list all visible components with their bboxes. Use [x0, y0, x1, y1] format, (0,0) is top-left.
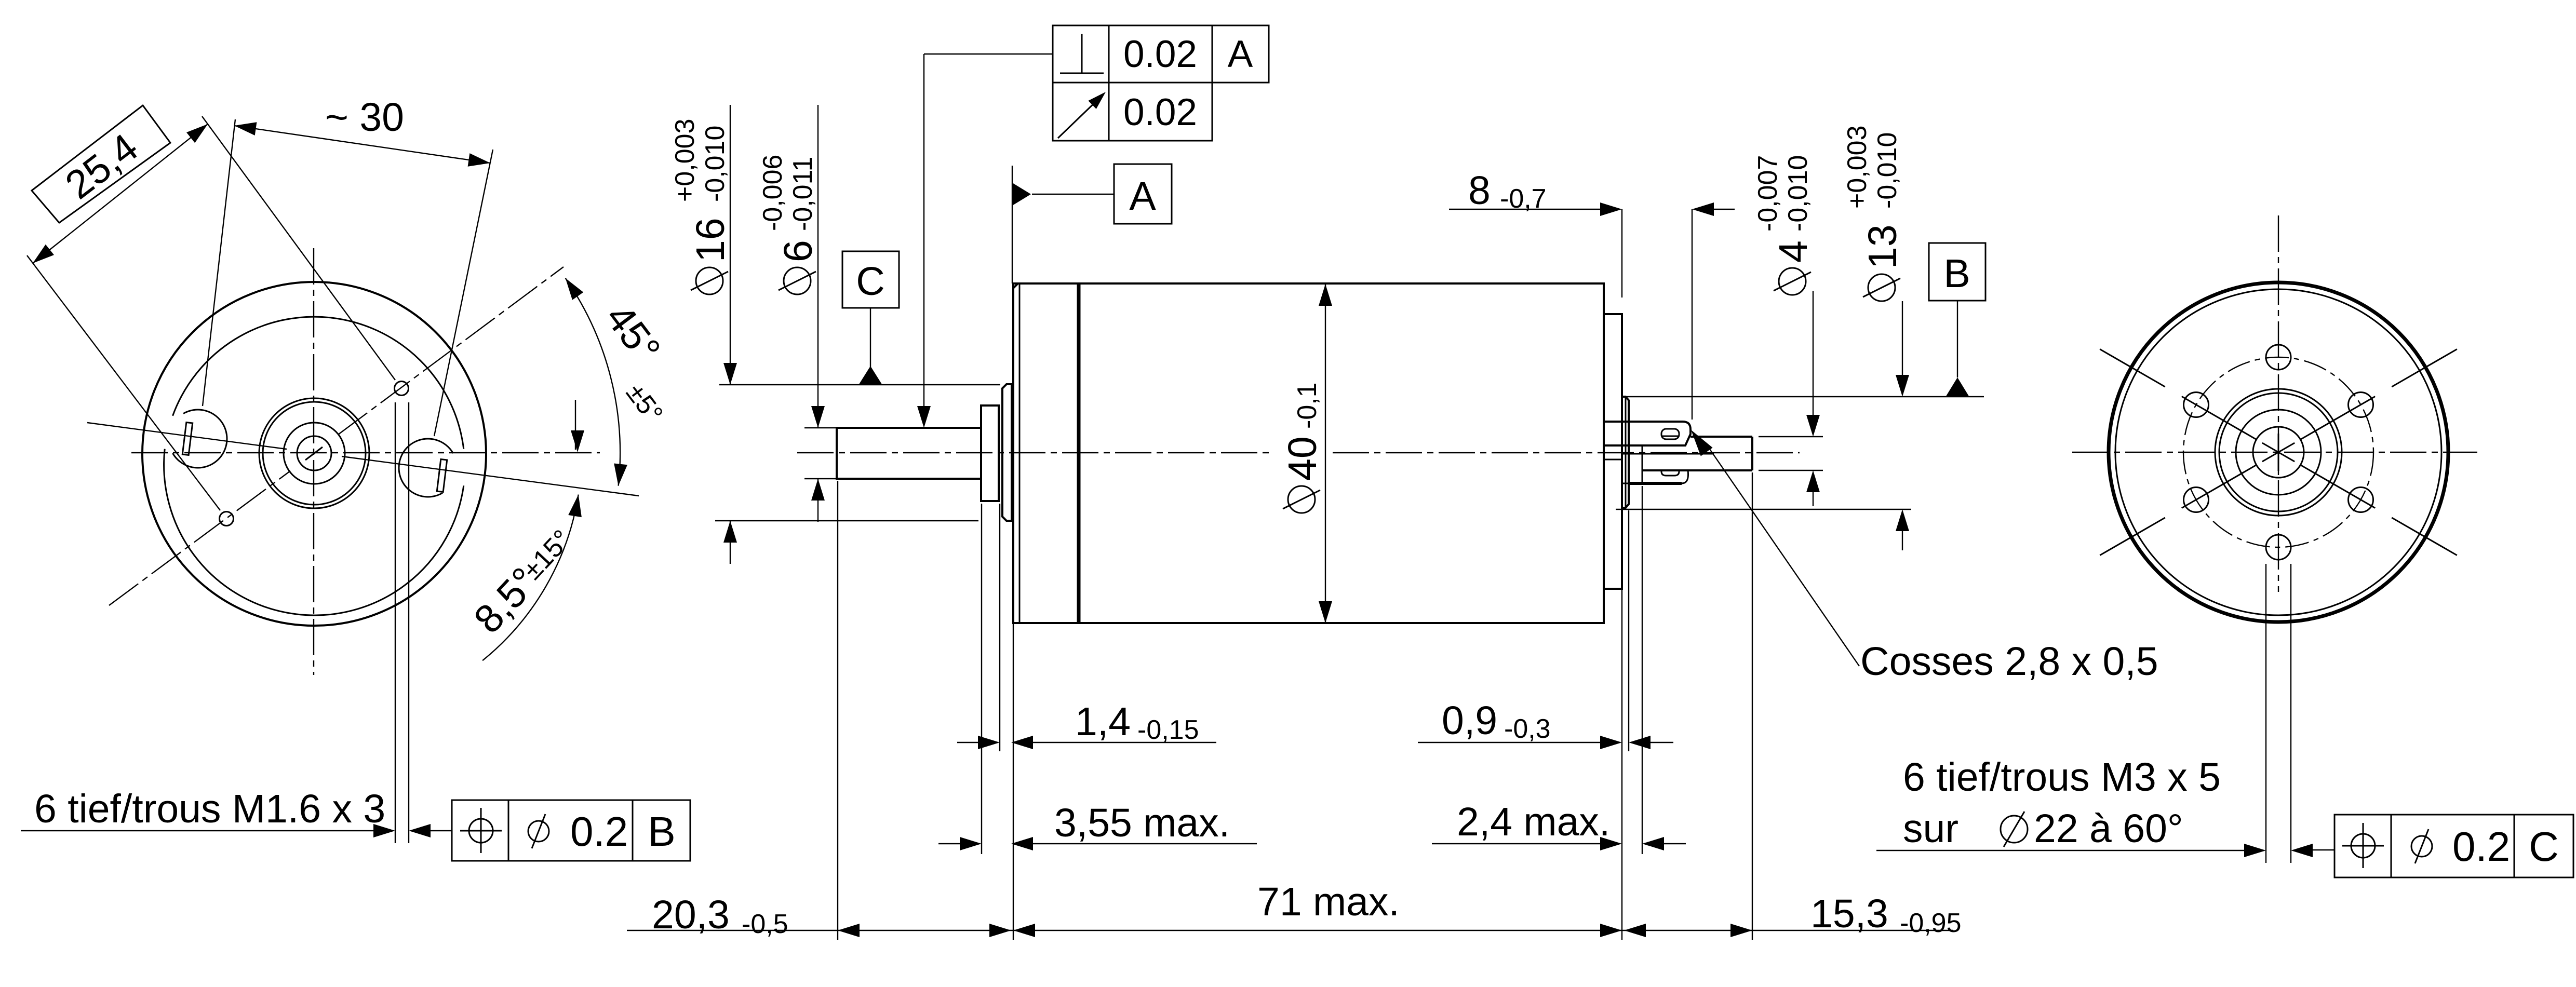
front view pin hole upper-right [395, 382, 409, 396]
front view hub boss circles [259, 398, 369, 508]
svg-text:C: C [856, 259, 885, 304]
rear hub ⌀13 outline [1622, 397, 1629, 508]
svg-text:-0,95: -0,95 [1900, 908, 1962, 938]
svg-text:0.2: 0.2 [570, 808, 628, 855]
front view right notch crimp tab [437, 459, 447, 492]
datum A leader and triangle [1032, 194, 1114, 195]
label ⌀16 with tolerances [670, 119, 733, 295]
front view left notch cutout [173, 410, 227, 468]
dimension ~30 extension lines [203, 119, 235, 406]
lower terminal cosse lines [1622, 453, 1714, 455]
rear view vertical centerline [2278, 215, 2279, 592]
datum C leader and triangle [870, 308, 871, 367]
Cosses leader line and arrow [1705, 442, 1859, 666]
motor body front cap seam line [1019, 283, 1021, 623]
svg-text:-0,010: -0,010 [1872, 132, 1902, 209]
dimension 45° ±5° text [597, 296, 669, 371]
feature control frame position ⌀0.2 B [452, 800, 690, 861]
rear shaft ⌀4 outline [1691, 436, 1752, 438]
dimension 25,4 dimension line with arrows [33, 124, 208, 263]
note M3 leader line and arrows [1876, 850, 2244, 851]
svg-text:4: 4 [1771, 240, 1816, 263]
position symbol in frame B [469, 819, 493, 843]
dimension ⌀4 extension ticks [1759, 436, 1823, 437]
circular runout arrow symbol [1058, 98, 1099, 138]
svg-text:40: 40 [1280, 436, 1325, 481]
datum A box and letter [1114, 164, 1172, 224]
perpendicularity symbol [1081, 34, 1083, 73]
svg-text:±5°: ±5° [620, 378, 668, 428]
dimension 0,9 line and arrows [1418, 742, 1600, 743]
front view vertical centerline [313, 248, 314, 675]
datum C box and letter [842, 251, 899, 308]
note M1.6 leader line and arrows [21, 830, 373, 831]
svg-text:-0,011: -0,011 [788, 156, 818, 231]
diameter symbol in frame C [2411, 836, 2432, 857]
dimension 3,55 line and arrows [938, 843, 960, 844]
label ⌀4 with tolerances [1753, 155, 1816, 295]
dimension 45° arc with arrows [566, 278, 620, 486]
svg-text:6: 6 [776, 240, 821, 262]
svg-text:+0,003: +0,003 [1842, 126, 1872, 209]
svg-text:-0,007: -0,007 [1753, 155, 1783, 232]
svg-text:6 tief/trous M3 x 5: 6 tief/trous M3 x 5 [1903, 755, 2221, 800]
svg-text:13: 13 [1860, 224, 1905, 269]
feature control frame position ⌀0.2 C [2334, 815, 2573, 877]
rear housing outline [1604, 314, 1622, 589]
front shaft ⌀6 outline [837, 428, 981, 479]
rear view radial centerlines [2301, 465, 2375, 508]
dimension ⌀4 line and arrows [1813, 291, 1814, 415]
rear view bolt circle centerline [2183, 357, 2373, 547]
dimension ⌀16 extension lines [719, 384, 1000, 385]
datum B leader and triangle [1957, 301, 1958, 377]
svg-text:+0,003: +0,003 [670, 119, 700, 202]
svg-text:6 tief/trous M1.6 x 3: 6 tief/trous M1.6 x 3 [34, 787, 385, 831]
svg-text:-0,3: -0,3 [1504, 714, 1551, 744]
svg-text:sur: sur [1903, 806, 1958, 851]
upper terminal cosse outline [1605, 422, 1691, 445]
diameter symbol in frame B [528, 821, 549, 842]
dimension 8 extension lines [1621, 209, 1622, 298]
front view horizontal centerline [131, 452, 600, 453]
rear view hub circles [2215, 389, 2342, 516]
frame 0.02 leader to shaft [924, 53, 1053, 55]
svg-text:-0,006: -0,006 [758, 155, 788, 231]
middle view horizontal centerline [797, 452, 1273, 453]
motor body corner chamfer [1013, 283, 1018, 288]
front bearing boss ⌀16 outline [1002, 384, 1012, 521]
feature control frame 0.02 A [1053, 25, 1269, 83]
dimension ⌀6 extension ticks [804, 427, 837, 428]
svg-text:B: B [648, 808, 675, 855]
svg-text:-0,5: -0,5 [742, 909, 788, 939]
svg-text:15,3: 15,3 [1810, 891, 1888, 936]
front view right notch cutout [399, 439, 453, 497]
svg-text:~ 30: ~ 30 [325, 95, 404, 140]
rear view center star marking [2262, 443, 2295, 462]
datum A extension line [1012, 166, 1013, 283]
dimension 25,4 box and text [32, 105, 170, 223]
label ⌀40 with tolerance [1280, 382, 1325, 513]
svg-text:22 à 60°: 22 à 60° [2034, 806, 2183, 851]
front view shaft slot slash [305, 447, 323, 460]
rear view M3 holes [2349, 488, 2373, 512]
rear bottom hole extension lines [2265, 564, 2266, 863]
dimension 25,4 extension lines [202, 116, 395, 380]
dimension ⌀40 line and arrows [1325, 284, 1326, 623]
dimension ⌀13 line and arrows [1902, 301, 1903, 375]
svg-text:45°: 45° [597, 296, 669, 371]
upper cosse slot [1661, 429, 1679, 439]
svg-text:0.02: 0.02 [1123, 91, 1197, 133]
dimension ⌀16 dimension line and arrows [730, 105, 731, 385]
svg-text:71 max.: 71 max. [1257, 880, 1400, 924]
dimension 8,5° ±15° text [465, 559, 547, 642]
front view pin hole lower-left [220, 512, 234, 526]
dimension 8,5° arc and arrows [482, 495, 579, 661]
svg-text:-0,15: -0,15 [1137, 715, 1199, 745]
dimension 2,4 line and arrows [1432, 843, 1600, 844]
dimension ⌀13 extension lines [1625, 396, 1984, 397]
svg-text:0.02: 0.02 [1123, 33, 1197, 75]
label ⌀13 with tolerances [1842, 126, 1905, 302]
svg-text:16: 16 [688, 218, 733, 262]
position symbol in frame C [2351, 834, 2375, 858]
dimension 1,4 line and arrows [957, 742, 978, 743]
svg-text:-0,1: -0,1 [1292, 382, 1322, 429]
svg-text:0,9: 0,9 [1442, 698, 1497, 743]
M1.6 hole extension lines [395, 402, 396, 843]
svg-text:-0,010: -0,010 [1783, 155, 1813, 232]
svg-text:Cosses 2,8 x 0,5: Cosses 2,8 x 0,5 [1860, 639, 2158, 684]
rear view inner rim circle [2115, 289, 2441, 615]
front view left notch crimp tab [182, 422, 192, 455]
front view inner rim arcs [164, 449, 464, 615]
dimension ~30 dimension line with arrows [234, 126, 490, 163]
datum B box and letter [1929, 243, 1985, 301]
front collar outline [981, 405, 999, 501]
front view outer circle ⌀ flange [142, 282, 486, 626]
label ⌀6 with tolerances [758, 155, 821, 294]
svg-text:2,4 max.: 2,4 max. [1457, 800, 1610, 844]
front view notch axis line [87, 423, 287, 449]
lower cosse slot lower arc [1661, 470, 1679, 476]
rear view horizontal centerline [2072, 452, 2477, 453]
rear view outer circle thick [2109, 282, 2448, 622]
dimension ⌀6 dimension line and arrows [817, 105, 819, 428]
svg-text:1,4: 1,4 [1075, 699, 1131, 744]
svg-text:B: B [1943, 251, 1970, 296]
motor body thick weld line [1077, 283, 1081, 623]
svg-text:A: A [1228, 33, 1253, 75]
motor body outline [1013, 283, 1604, 623]
svg-text:A: A [1129, 174, 1156, 219]
svg-text:C: C [2529, 823, 2559, 870]
svg-text:3,55 max.: 3,55 max. [1054, 801, 1230, 845]
front view pin-hole axis centerline [109, 471, 290, 605]
svg-text:8: 8 [1468, 168, 1491, 213]
svg-text:-0,010: -0,010 [700, 126, 730, 202]
bottom extension lines [837, 481, 838, 940]
bottom dimension line 20,3 / 71 / 15,3 with arrows [627, 930, 1953, 931]
svg-text:0.2: 0.2 [2452, 823, 2510, 870]
dimension 8 line and arrows [1449, 209, 1600, 210]
